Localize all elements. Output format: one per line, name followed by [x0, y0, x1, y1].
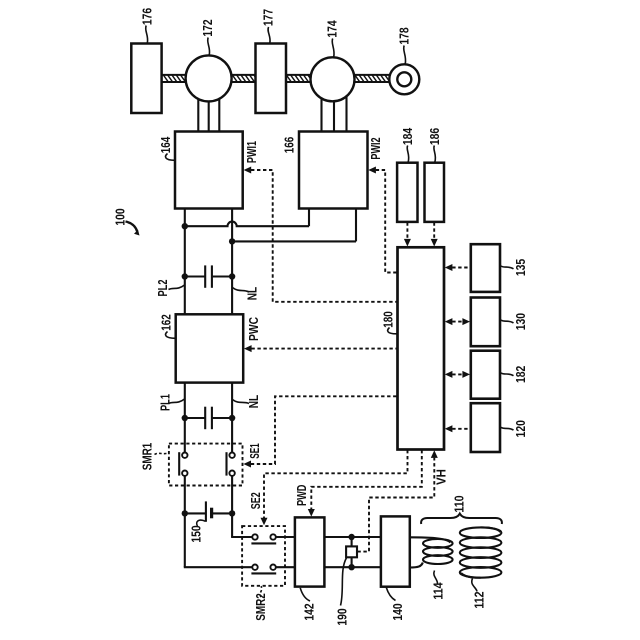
svg-text:164: 164 — [158, 136, 173, 153]
svg-text:180: 180 — [381, 311, 396, 328]
svg-text:162: 162 — [159, 314, 174, 331]
svg-text:130: 130 — [513, 313, 528, 330]
svg-text:150: 150 — [189, 525, 204, 542]
svg-text:VH: VH — [434, 469, 448, 485]
svg-text:182: 182 — [513, 366, 528, 383]
svg-text:186: 186 — [427, 128, 442, 145]
svg-text:135: 135 — [513, 259, 528, 276]
svg-text:PWD: PWD — [295, 485, 309, 507]
svg-text:PWC: PWC — [247, 317, 261, 341]
svg-text:178: 178 — [397, 27, 412, 44]
svg-text:172: 172 — [200, 19, 215, 36]
svg-text:100: 100 — [113, 208, 128, 225]
svg-text:NL: NL — [246, 286, 260, 300]
svg-text:112: 112 — [472, 591, 487, 608]
svg-text:PL1: PL1 — [159, 394, 173, 411]
svg-text:114: 114 — [431, 582, 446, 600]
svg-text:SE2: SE2 — [249, 492, 263, 509]
svg-text:177: 177 — [261, 9, 276, 26]
svg-text:SE1: SE1 — [248, 443, 262, 459]
svg-text:174: 174 — [325, 20, 340, 38]
svg-text:PWI2: PWI2 — [369, 137, 383, 159]
svg-text:SMR2: SMR2 — [254, 593, 268, 621]
svg-text:140: 140 — [390, 603, 405, 620]
svg-text:120: 120 — [513, 420, 528, 437]
svg-text:176: 176 — [139, 8, 154, 25]
svg-text:166: 166 — [282, 137, 297, 154]
svg-text:NL: NL — [247, 394, 261, 408]
svg-text:190: 190 — [335, 608, 350, 625]
svg-text:PWI1: PWI1 — [245, 141, 259, 163]
svg-text:142: 142 — [302, 603, 317, 620]
svg-text:SMR1: SMR1 — [141, 443, 155, 471]
svg-text:184: 184 — [400, 127, 415, 145]
svg-text:110: 110 — [452, 495, 467, 512]
svg-text:PL2: PL2 — [156, 279, 170, 296]
